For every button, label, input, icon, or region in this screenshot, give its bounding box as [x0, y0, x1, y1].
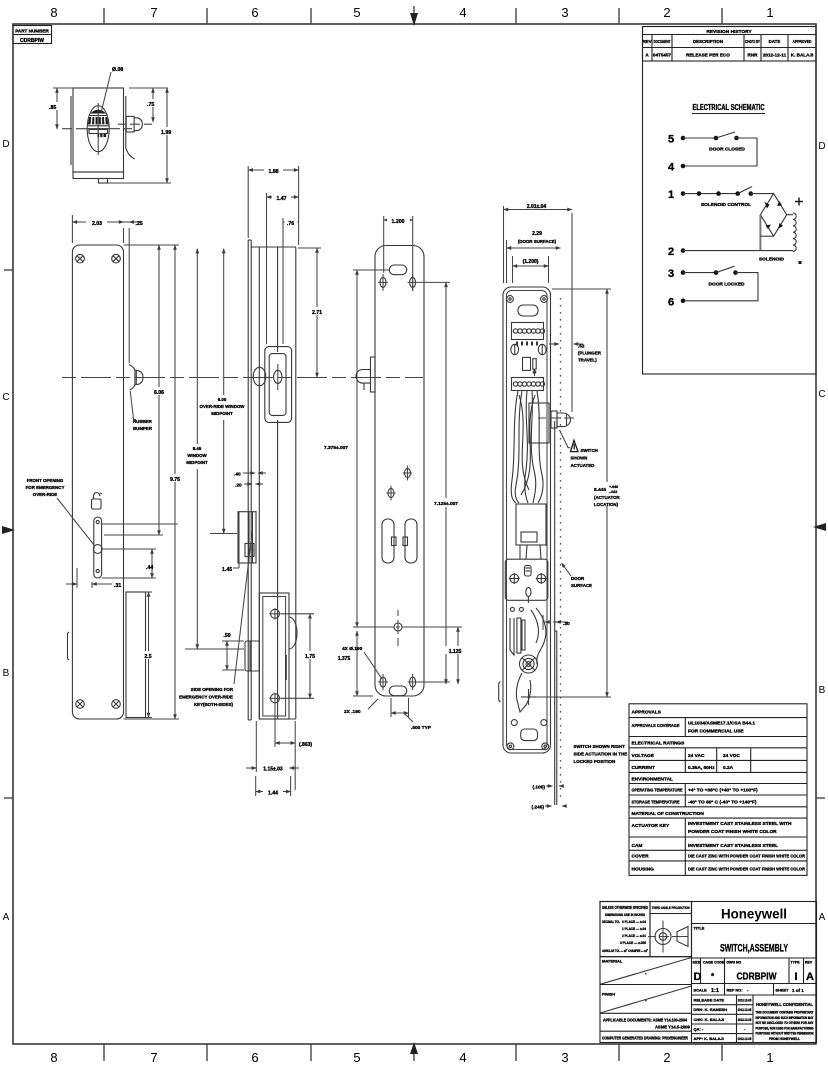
electrical schematic enclosure box: [643, 27, 817, 375]
wire bridge right vertex to coil: [787, 214, 793, 216]
svg-text:1.88: 1.88: [268, 169, 278, 175]
node pin5 dot: [681, 136, 686, 141]
schematic title ELECTRICAL SCHEMATIC: [692, 103, 765, 114]
label SOLENOID: [759, 257, 785, 263]
approvals and ratings table: [629, 704, 807, 876]
svg-text:OVER-RIDE: OVER-RIDE: [33, 492, 57, 497]
dimension 2.71: [298, 248, 326, 378]
svg-text:2012-12-05: 2012-12-05: [738, 1037, 752, 1041]
dimension 2.5: [141, 592, 156, 718]
svg-text:5: 5: [353, 5, 360, 20]
svg-text:2.01±.04: 2.01±.04: [527, 204, 547, 210]
svg-text:KEY(BOTH-SIDES): KEY(BOTH-SIDES): [194, 702, 234, 707]
warning triangle switch shown actuated: [560, 430, 598, 468]
svg-text:(PLUNGER: (PLUNGER: [578, 351, 602, 356]
signature table: [692, 995, 754, 1043]
svg-text:Honeywell: Honeywell: [721, 906, 787, 922]
svg-text:.25: .25: [136, 221, 143, 227]
svg-text:(1.200): (1.200): [523, 259, 539, 265]
bottom hole left: [378, 674, 388, 690]
wire switch S1 to pin4 loop: [683, 138, 757, 166]
svg-text:RELEASE DATE: RELEASE DATE: [694, 998, 725, 1003]
mid hole lower: [386, 486, 395, 501]
svg-text:DOOR LOCKED: DOOR LOCKED: [709, 282, 746, 288]
label DOOR CLOSED: [709, 147, 745, 153]
svg-text:0.2A: 0.2A: [723, 765, 734, 771]
dimension (.245): [531, 805, 566, 811]
dimension 1.125: [353, 627, 467, 684]
dimension 1.45: [222, 512, 239, 573]
dimension .40: [234, 472, 266, 478]
bottom mounting slot: [389, 686, 406, 696]
svg-text:1: 1: [766, 1050, 773, 1065]
center arrow top: [410, 6, 418, 26]
honeywell confidential note: [756, 1002, 815, 1041]
label FRONT OPENING FOR EMERGENCY OVER-RIDE with leader: [26, 478, 94, 545]
svg-text:(DOOR SURFACE): (DOOR SURFACE): [518, 239, 557, 244]
svg-text:REVISION HISTORY: REVISION HISTORY: [706, 29, 752, 35]
view front-plate: plate body: [67, 245, 123, 719]
node pin4 dot: [681, 164, 686, 169]
svg-text:1.45: 1.45: [222, 567, 232, 573]
svg-text:EMERGENCY OVER-RIDE: EMERGENCY OVER-RIDE: [179, 695, 233, 700]
dimension (.105): [532, 785, 563, 791]
svg-text:A: A: [806, 971, 814, 983]
svg-text:-40° TO 60° C (-40° TO +140°F): -40° TO 60° C (-40° TO +140°F): [688, 799, 757, 805]
svg-text:24 VDC: 24 VDC: [723, 753, 740, 759]
svg-text:3 PLACE — ±.005: 3 PLACE — ±.005: [620, 941, 646, 945]
computer generated drawing note: [602, 902, 692, 1043]
pin 5 label: [668, 134, 674, 146]
scale ref sheet row: [692, 984, 817, 996]
switch S2 solenoid control contacts: [735, 187, 753, 196]
svg-text:D: D: [818, 141, 825, 152]
lock switch screw right: [536, 573, 547, 584]
svg-text:D: D: [694, 971, 702, 983]
svg-text:DECIMAL TOL: DECIMAL TOL: [602, 920, 621, 924]
wire pin5 to switch: [683, 137, 716, 139]
svg-text:7.375±.007: 7.375±.007: [324, 445, 348, 451]
svg-text:SHOWN: SHOWN: [571, 456, 588, 461]
switch block with plunger: [529, 403, 571, 443]
dimension .59: [220, 630, 244, 670]
svg-text:K. BALAJI: K. BALAJI: [791, 52, 813, 57]
svg-text:MATERIAL OF CONSTRUCTION: MATERIAL OF CONSTRUCTION: [632, 811, 705, 817]
svg-text:9.75: 9.75: [170, 477, 180, 483]
svg-text:UL1034/ASME17.1/CSA B44.1: UL1034/ASME17.1/CSA B44.1: [688, 721, 755, 727]
dimension 8.445 actuator location: [535, 289, 624, 697]
svg-text:MATERIAL: MATERIAL: [602, 959, 623, 964]
dimension .52 plunger travel: [549, 344, 602, 363]
revision history table: [642, 27, 816, 62]
svg-text:FINISH: FINISH: [602, 992, 615, 997]
svg-text:.76: .76: [287, 221, 294, 227]
switch body side view block: [259, 593, 297, 719]
plus polarity mark: [795, 198, 803, 206]
svg-text:CURRENT: CURRENT: [632, 765, 656, 771]
wire switch S3 to pin6 loop: [683, 273, 758, 301]
svg-text:2 PLACE — ±.01: 2 PLACE — ±.01: [622, 934, 646, 938]
dimension 1.75: [281, 614, 319, 699]
svg-text:4: 4: [459, 1050, 466, 1065]
top hole right: [408, 274, 418, 291]
svg-text:1 PLACE — ±.04: 1 PLACE — ±.04: [622, 927, 647, 931]
part number box: [13, 26, 52, 44]
svg-text:CAM: CAM: [632, 843, 643, 849]
actuator location cross mark: [521, 689, 536, 705]
svg-text:2: 2: [663, 5, 670, 20]
screw top-right: [112, 254, 121, 263]
svg-text:8: 8: [50, 5, 57, 20]
node pin3 dot: [681, 270, 686, 275]
svg-text:.44: .44: [146, 565, 153, 571]
wire pin3 to door locked switch: [683, 272, 716, 274]
svg-text:FRONT OPENING: FRONT OPENING: [27, 478, 64, 483]
view side: bumper ellipse: [253, 367, 266, 385]
node pin6 dot: [681, 299, 686, 304]
zone ruler ticks top: [104, 8, 722, 24]
size cage dwg cells: [692, 958, 817, 984]
svg-text:APPROVALS COVERAGE: APPROVALS COVERAGE: [632, 723, 681, 729]
svg-text:5: 5: [668, 134, 674, 146]
dimension 2.01±.04: [504, 201, 573, 283]
svg-text:SOLENOID CONTROL: SOLENOID CONTROL: [701, 202, 751, 208]
dimension 1.88: [248, 166, 298, 245]
dimension .85: [49, 88, 73, 129]
Honeywell logo: [692, 906, 817, 924]
svg-text:C: C: [818, 389, 825, 400]
view top: actuator ellipse: [87, 106, 109, 152]
svg-text:1.125: 1.125: [449, 649, 462, 655]
svg-text:QA: -: QA: -: [694, 1027, 704, 1032]
dimension 1.375: [334, 631, 373, 696]
dimension 9.75: [124, 245, 185, 719]
pin 2 label: [668, 246, 674, 258]
screw side bottom: [269, 693, 281, 705]
wire bridge left vertex to pin2 line: [759, 215, 761, 251]
mid hole upper: [403, 466, 412, 481]
zone letters right: [818, 141, 825, 923]
svg-text:(.863): (.863): [299, 742, 312, 748]
svg-text:DATE: DATE: [769, 39, 781, 44]
view top: switch top view body: [71, 88, 124, 183]
view side: housing body edges: [251, 247, 296, 719]
svg-text:OPERATING TEMPERATURE: OPERATING TEMPERATURE: [632, 788, 684, 794]
svg-text:I: I: [794, 971, 797, 983]
slotted screw left: [511, 344, 519, 354]
jumper block: [523, 357, 537, 376]
svg-text:REF NO:: REF NO:: [727, 988, 743, 993]
svg-text:NOT BE DISCLOSED TO OTHERS FOR: NOT BE DISCLOSED TO OTHERS FOR ANY: [756, 1021, 815, 1025]
screw bottom-right: [112, 700, 121, 709]
svg-text:2X .190: 2X .190: [344, 709, 361, 715]
svg-text:DOOR: DOOR: [571, 576, 585, 581]
svg-text:RUBBER: RUBBER: [133, 419, 153, 424]
dimension .20: [235, 483, 263, 489]
svg-text:REV: REV: [642, 39, 651, 44]
dimension .25: [124, 221, 143, 363]
svg-text:A: A: [819, 912, 826, 923]
svg-text:WINDOW: WINDOW: [187, 453, 207, 458]
material box: [600, 957, 692, 985]
svg-text:7: 7: [150, 1050, 157, 1065]
label DOOR LOCKED: [709, 282, 746, 288]
dimension 1.15±.03: [246, 721, 299, 773]
svg-text:DIE CAST ZINC WITH POWDER COAT: DIE CAST ZINC WITH POWDER COAT FINISH WH…: [688, 854, 805, 860]
view top: centerline crosshair: [62, 103, 132, 155]
dimension .30: [543, 615, 570, 630]
top mounting slot: [353, 265, 407, 275]
applicable documents box: [600, 1018, 692, 1032]
svg-text:+.040: +.040: [609, 485, 618, 489]
pin 1 label: [668, 189, 674, 201]
svg-text:ANGULAR TOL — ±2° CHAMFER — ±: ANGULAR TOL — ±2° CHAMFER — ±2°: [602, 949, 648, 953]
svg-text:+4° TO +38°C (+40° TO +100°F): +4° TO +38°C (+40° TO +100°F): [688, 788, 758, 794]
wire bridge bottom vertex joint: [760, 235, 773, 237]
label SWITCH SHOWN RIGHT SIDE ACTUATION IN THE LOCKED POSITION: [574, 744, 628, 764]
svg-text:HOUSING: HOUSING: [632, 867, 655, 873]
view side: over-ride window: [265, 347, 292, 423]
svg-text:APPROVED: APPROVED: [793, 39, 812, 44]
svg-text:FOR EMERGENCY: FOR EMERGENCY: [26, 485, 65, 490]
svg-text:1.200: 1.200: [392, 219, 405, 225]
svg-text:SIDE OPENING FOR: SIDE OPENING FOR: [191, 687, 234, 692]
bottom center hole: [388, 610, 408, 646]
svg-text:LOCKED POSITION: LOCKED POSITION: [574, 759, 616, 764]
svg-text:ACTUATED: ACTUATED: [571, 463, 595, 468]
svg-text:.59: .59: [223, 633, 230, 639]
bottom hole right: [408, 674, 418, 690]
screw side top: [269, 608, 281, 620]
svg-text:DIE CAST ZINC WITH POWDER COAT: DIE CAST ZINC WITH POWDER COAT FINISH WH…: [688, 867, 805, 873]
label 2X .190: [344, 699, 378, 715]
svg-text:CDRBPIW: CDRBPIW: [737, 972, 777, 983]
zone ruler numbers top: [50, 5, 773, 20]
svg-text:INVESTMENT CAST STAINLESS STEE: INVESTMENT CAST STAINLESS STEEL WITH: [688, 821, 792, 827]
svg-text:24 VAC: 24 VAC: [688, 753, 705, 759]
dimension 6.06: [102, 245, 178, 535]
wire harness bundle: [511, 391, 543, 503]
svg-text:6.00: 6.00: [218, 397, 227, 402]
solenoid body block: [516, 504, 546, 559]
svg-text:3: 3: [561, 1050, 568, 1065]
third angle projection box: [648, 902, 692, 957]
svg-text:RELEASE PER ECO: RELEASE PER ECO: [686, 52, 730, 57]
view side: faceplate edge lines: [248, 240, 251, 720]
svg-text:8.45: 8.45: [193, 446, 202, 451]
svg-text:1.44: 1.44: [268, 791, 278, 797]
svg-text:2: 2: [668, 246, 674, 258]
svg-text:2012-12-05: 2012-12-05: [738, 999, 752, 1003]
svg-text:3: 3: [668, 268, 674, 280]
svg-text:COVER: COVER: [632, 854, 650, 860]
wire pin1 to solenoid control switch: [683, 191, 738, 196]
svg-text:CHG'D BY: CHG'D BY: [745, 39, 760, 44]
side opening upper block: [238, 512, 256, 563]
view mounting plate: body: [375, 246, 424, 697]
svg-text:(.105): (.105): [532, 785, 545, 791]
svg-text:MIDPOINT: MIDPOINT: [211, 411, 233, 416]
screw top-left: [76, 254, 85, 263]
svg-text:SWITCH: SWITCH: [581, 448, 598, 453]
svg-text:7: 7: [150, 5, 157, 20]
svg-text:REV: REV: [805, 961, 813, 965]
bridge rectifier BR1 diamond: [760, 194, 786, 237]
svg-text:4: 4: [459, 5, 466, 20]
svg-text:APPLICABLE DOCUMENTS: ASME Y14: APPLICABLE DOCUMENTS: ASME Y14.100-2004: [603, 1018, 688, 1023]
svg-text:2.29: 2.29: [532, 231, 542, 237]
key slot padlock icon: [92, 493, 102, 510]
svg-text:5: 5: [353, 1050, 360, 1065]
housing top screw right: [541, 296, 548, 303]
terminal pin numbers: [516, 342, 538, 346]
door surface dotted line: [560, 298, 562, 800]
housing top screw left: [507, 296, 514, 303]
plunger centerline: [538, 417, 574, 419]
svg-text:SURFACE: SURFACE: [571, 583, 592, 588]
svg-text:2.71: 2.71: [312, 310, 322, 316]
svg-text:.500 TYP: .500 TYP: [411, 725, 432, 731]
svg-text:2.5: 2.5: [144, 654, 151, 660]
door jamb plate edge lines: [555, 421, 557, 805]
svg-text:OVER-RIDE WINDOW: OVER-RIDE WINDOW: [200, 404, 246, 409]
svg-text:1: 1: [668, 189, 674, 201]
svg-text:2.03: 2.03: [92, 221, 102, 227]
svg-text:7.125±.007: 7.125±.007: [434, 501, 458, 507]
svg-text:PURPOSES WITHOUT WRITTEN PERMI: PURPOSES WITHOUT WRITTEN PERMISSION: [756, 1032, 815, 1036]
svg-text:.20: .20: [235, 483, 242, 489]
svg-text:DOOR CLOSED: DOOR CLOSED: [709, 147, 745, 153]
svg-text:.31: .31: [114, 583, 121, 589]
dimension 1.99: [108, 88, 177, 183]
dimension .75: [129, 88, 168, 122]
side cover plate rectangle: [126, 592, 146, 718]
svg-text:2012-12-05: 2012-12-05: [738, 1008, 752, 1012]
svg-text:SWITCH,ASSEMBLY: SWITCH,ASSEMBLY: [720, 943, 788, 955]
finish box: [600, 986, 692, 1013]
svg-text:DWG NO: DWG NO: [727, 961, 742, 965]
minus polarity dot: [799, 261, 802, 264]
dimension .31: [66, 568, 121, 589]
svg-text:.30: .30: [563, 621, 570, 627]
svg-text:SWITCH SHOWN RIGHT: SWITCH SHOWN RIGHT: [574, 744, 626, 749]
small terminal circles below block: [510, 607, 523, 611]
actuator cam mechanism: [510, 608, 546, 712]
housing top oval slot: [518, 305, 538, 316]
pin 3 label: [668, 268, 674, 280]
solenoid coil L1: [793, 213, 796, 251]
svg-text:(ACTUATOR: (ACTUATOR: [594, 495, 621, 500]
wire switch S2 to bridge top: [751, 193, 774, 195]
svg-text:1.75: 1.75: [305, 654, 315, 660]
dimension 1.200: [384, 216, 413, 291]
svg-text:PART NUMBER: PART NUMBER: [15, 29, 49, 34]
dimension 2.03: [72, 215, 123, 243]
tolerance note box: [600, 902, 650, 957]
svg-text:FROM HONEYWELL: FROM HONEYWELL: [769, 1037, 800, 1041]
dimension .76: [283, 218, 299, 344]
dimension Ø.08 leader: [101, 67, 123, 113]
terminal block upper: [512, 323, 545, 340]
dimension 1.44: [256, 776, 291, 797]
svg-text:B: B: [3, 668, 10, 679]
svg-text:SOLENOID: SOLENOID: [759, 257, 785, 263]
switch S3 door locked contacts: [714, 266, 738, 275]
global horizontal centerline: [62, 377, 423, 379]
center arrow left: [2, 526, 15, 534]
svg-text:1.99: 1.99: [161, 130, 171, 136]
svg-text:SIZE: SIZE: [693, 961, 701, 965]
view top: actuator key stripes: [88, 110, 109, 137]
label SOLENOID CONTROL: [701, 202, 751, 208]
wire pin2 to coil bottom: [683, 250, 793, 252]
label DOOR SURFACE with leader: [562, 563, 593, 588]
svg-text:BUMPER: BUMPER: [133, 426, 153, 431]
svg-text:A: A: [3, 912, 10, 923]
center arrow right: [813, 523, 826, 531]
svg-text:.52: .52: [578, 344, 585, 349]
svg-text:RNR: RNR: [748, 52, 759, 57]
svg-text:MIDPOINT: MIDPOINT: [186, 460, 208, 465]
plunger travel reference line: [571, 213, 573, 412]
svg-text:FOR COMMERCIAL USE: FOR COMMERCIAL USE: [688, 729, 744, 735]
slotted screw right: [538, 344, 546, 354]
svg-text:TITLE: TITLE: [694, 926, 705, 931]
zone ruler numbers bottom: [50, 1050, 773, 1065]
svg-text:04T5457: 04T5457: [653, 52, 672, 57]
dimension (.863): [275, 704, 312, 790]
plunger protruding left: [356, 357, 375, 392]
svg-text:LOCATION): LOCATION): [594, 502, 619, 507]
svg-text:3: 3: [561, 5, 568, 20]
svg-text:INFORMATION AND SUCH INFORMATI: INFORMATION AND SUCH INFORMATION MAY: [756, 1016, 815, 1020]
actuator slot left: [382, 519, 396, 563]
svg-text:.85: .85: [49, 105, 56, 111]
svg-text:1 of 1: 1 of 1: [792, 988, 804, 993]
svg-text:CAGE CODE: CAGE CODE: [703, 961, 725, 965]
svg-text:B: B: [819, 685, 826, 696]
svg-text:INVESTMENT CAST STAINLESS STEE: INVESTMENT CAST STAINLESS STEEL: [688, 843, 778, 849]
pin 4 label: [668, 162, 675, 174]
dimension .500 TYP: [391, 698, 432, 731]
svg-text:HONEYWELL CONFIDENTIAL: HONEYWELL CONFIDENTIAL: [756, 1002, 813, 1007]
svg-text:PURPOSE, NOR USED FOR MANUFACT: PURPOSE, NOR USED FOR MANUFACTURING: [756, 1026, 814, 1030]
svg-text:1.15±.03: 1.15±.03: [263, 767, 283, 773]
switch S1 door closed contacts: [714, 132, 739, 140]
svg-text:POWDER COAT FINISH WHITE COLOR: POWDER COAT FINISH WHITE COLOR: [688, 829, 777, 835]
svg-text:ELECTRICAL RATINGS: ELECTRICAL RATINGS: [632, 741, 686, 747]
svg-text:TRAVEL): TRAVEL): [578, 358, 597, 363]
svg-text:8.445: 8.445: [594, 487, 606, 493]
zone ticks sides: [4, 270, 825, 798]
svg-text:.75: .75: [147, 102, 154, 108]
svg-text:SCALE: SCALE: [694, 988, 708, 993]
svg-text:.40: .40: [234, 472, 241, 478]
svg-text:2012-12-05: 2012-12-05: [738, 1018, 752, 1022]
svg-text:1:1: 1:1: [711, 988, 719, 994]
svg-text:CDRBPIW: CDRBPIW: [20, 38, 44, 44]
svg-text:ASME Y14.5-2009: ASME Y14.5-2009: [655, 1025, 691, 1030]
svg-text:C: C: [2, 392, 9, 403]
pin 6 label: [668, 296, 674, 308]
svg-text:Ø.08: Ø.08: [112, 67, 123, 73]
svg-text:SHEET: SHEET: [776, 988, 790, 993]
svg-text:COMPUTER GENERATED DRAWING: PR: COMPUTER GENERATED DRAWING: PRO/ENGINEER: [602, 1036, 688, 1041]
svg-text:6: 6: [251, 5, 258, 20]
svg-text:ACTUATOR KEY: ACTUATOR KEY: [632, 823, 670, 829]
svg-text:0 PLACE — ±.04: 0 PLACE — ±.04: [622, 920, 647, 924]
svg-text:UNLESS OTHERWISE SPECIFIED: UNLESS OTHERWISE SPECIFIED: [602, 905, 648, 910]
